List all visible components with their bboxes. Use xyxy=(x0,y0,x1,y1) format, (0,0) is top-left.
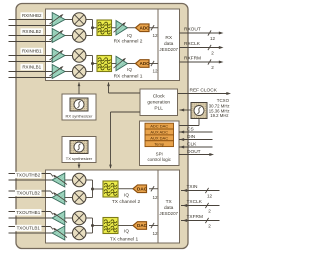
block aux Temp xyxy=(145,141,174,147)
svg-text:SPI: SPI xyxy=(156,152,163,157)
svg-text:TXCLK: TXCLK xyxy=(187,199,203,205)
amplifier RX VGA xyxy=(116,21,128,35)
wire JESD to DAC xyxy=(149,188,158,190)
pin label TXOUTHB2 xyxy=(15,172,42,178)
svg-text:12: 12 xyxy=(207,194,213,199)
filter RX lowpass channel 2 xyxy=(97,20,112,36)
wire RXINHB2 pin lower xyxy=(9,25,52,27)
wire TXOUTLB1 pin upper xyxy=(9,226,51,228)
RX data JESD207 interface box xyxy=(158,9,180,81)
wire ADC to JESD xyxy=(149,63,158,65)
wire TXOUTHB2 pin lower xyxy=(9,179,53,181)
wire VGA to ADC xyxy=(128,63,136,65)
svg-text:2: 2 xyxy=(211,65,214,70)
pin label TXOUTLB1 xyxy=(15,225,42,231)
wire TX synth to TX box xyxy=(78,163,80,169)
svg-text:RXINLB2: RXINLB2 xyxy=(22,29,41,34)
wire bus to filter xyxy=(93,27,98,29)
RX front-end box xyxy=(46,9,180,81)
filter TX lowpass channel 1 xyxy=(103,218,118,234)
wire filter to VGA xyxy=(112,63,117,65)
svg-text:Clock: Clock xyxy=(153,93,166,99)
filter TX lowpass channel 2 xyxy=(103,181,118,197)
svg-text:19.2 MHz: 19.2 MHz xyxy=(210,113,228,118)
svg-text:IQ: IQ xyxy=(127,33,132,38)
wire filter to bus xyxy=(93,188,104,190)
svg-text:JESD207: JESD207 xyxy=(159,47,178,52)
wire mixer2 to amp xyxy=(65,197,73,199)
svg-text:DIN: DIN xyxy=(187,134,196,140)
svg-text:2: 2 xyxy=(208,224,211,229)
wire bus vertical xyxy=(92,218,94,233)
wire clockgen to RX box xyxy=(109,92,141,94)
svg-text:RXFRM: RXFRM xyxy=(184,55,201,61)
wire TXOUTHB1 pin lower xyxy=(9,217,53,219)
ADC xyxy=(136,24,150,32)
svg-text:DAC: DAC xyxy=(137,186,148,191)
wire bus vertical xyxy=(92,56,94,72)
svg-text:RX synthesizer: RX synthesizer xyxy=(66,113,94,118)
wire input TXCLK xyxy=(181,205,220,207)
chip outline U1 transceiver xyxy=(16,4,188,249)
wire DAC to filter xyxy=(118,188,133,190)
amplifier RX VGA xyxy=(116,56,128,70)
svg-text:RX: RX xyxy=(165,35,172,41)
svg-text:TXOUTHB1: TXOUTHB1 xyxy=(16,210,41,215)
mixer RX 4 xyxy=(72,65,86,79)
block RX synthesizer xyxy=(62,94,96,120)
block SPI control logic xyxy=(140,121,180,166)
svg-text:TXFRM: TXFRM xyxy=(187,214,204,220)
svg-text:12: 12 xyxy=(152,33,158,38)
DAC xyxy=(133,185,147,193)
mixer TX 3 xyxy=(72,211,86,225)
DAC xyxy=(133,222,147,230)
svg-text:2: 2 xyxy=(208,209,211,214)
wire amp2 to mixer2 xyxy=(65,35,73,37)
pin label RXINLB1 xyxy=(21,64,44,70)
wire amp3 to mixer3 xyxy=(65,55,73,57)
wire bus to mixers xyxy=(86,217,93,219)
svg-text:IQ: IQ xyxy=(127,67,132,72)
wire TXOUTLB1 pin lower xyxy=(9,232,53,234)
wire ADC to JESD xyxy=(149,27,158,29)
wire input TXIN xyxy=(181,190,220,192)
svg-text:RX channel 1: RX channel 1 xyxy=(114,74,143,80)
svg-text:IQ: IQ xyxy=(124,193,129,198)
filter RX lowpass channel 1 xyxy=(97,56,112,72)
svg-text:DOUT: DOUT xyxy=(187,149,201,155)
svg-text:CLK: CLK xyxy=(187,141,197,147)
node junction xyxy=(91,188,94,191)
amplifier RX LNA 3 xyxy=(52,49,65,63)
block aux ADC DAC xyxy=(145,123,174,129)
wire RXINLB1 pin upper xyxy=(9,71,53,73)
pin label RXINLB2 xyxy=(21,28,44,34)
wire bus vertical xyxy=(92,20,94,36)
wire TXOUTHB1 pin upper xyxy=(9,211,51,213)
wire VGA to ADC xyxy=(128,27,136,29)
wire mixer4 to amp xyxy=(65,232,73,234)
svg-text:RXCLK: RXCLK xyxy=(184,41,201,47)
node junction xyxy=(91,26,94,29)
wire bus to filter xyxy=(93,63,98,65)
wire RXINLB2 pin upper xyxy=(9,35,53,37)
wire mixer pair to bus xyxy=(86,19,93,21)
svg-text:DAC: DAC xyxy=(137,223,148,228)
svg-text:RX channel 2: RX channel 2 xyxy=(114,38,143,44)
svg-text:IQ: IQ xyxy=(124,229,129,234)
wire RXINHB1 pin upper xyxy=(9,55,53,57)
wire mixer pair to bus xyxy=(86,55,93,57)
wire pin DOUT xyxy=(179,154,212,156)
wire pin DIN xyxy=(179,139,213,141)
wire bus to mixers xyxy=(86,179,93,181)
amplifier TX PA 4 xyxy=(52,226,65,240)
wire RXINLB2 pin lower xyxy=(9,41,52,43)
svg-text:RXOUT: RXOUT xyxy=(184,26,201,32)
svg-text:12: 12 xyxy=(152,231,158,236)
block aux AUX ADC xyxy=(145,129,174,135)
svg-text:12: 12 xyxy=(152,69,158,74)
svg-text:TXOUTLB2: TXOUTLB2 xyxy=(17,191,41,196)
svg-text:TX: TX xyxy=(166,199,173,205)
svg-text:TCXO: TCXO xyxy=(217,98,230,103)
svg-text:AUX DAC: AUX DAC xyxy=(150,135,168,140)
mixer TX 1 xyxy=(72,173,86,187)
wire REF CLOCK xyxy=(178,93,230,95)
wire amp4 to mixer4 xyxy=(65,71,73,73)
svg-text:REF CLOCK: REF CLOCK xyxy=(190,87,218,93)
mixer TX 4 xyxy=(72,226,86,240)
pin label TXOUTHB1 xyxy=(15,209,42,215)
svg-text:RXINHB2: RXINHB2 xyxy=(22,13,42,18)
svg-text:RXINHB1: RXINHB1 xyxy=(22,49,42,54)
svg-text:AUX ADC: AUX ADC xyxy=(150,130,168,135)
wire JESD to DAC xyxy=(149,225,158,227)
wire filter to bus xyxy=(93,225,104,227)
amplifier RX LNA 2 xyxy=(52,29,65,43)
svg-text:ADC: ADC xyxy=(140,61,151,66)
amplifier TX PA 3 xyxy=(52,211,65,225)
svg-text:TXOUTHB2: TXOUTHB2 xyxy=(16,173,41,178)
wire mixer3 to amp xyxy=(65,217,73,219)
svg-text:12: 12 xyxy=(210,36,216,41)
pin label RXINHB1 xyxy=(21,48,44,54)
wire input TXFRM xyxy=(181,220,220,222)
wire TXOUTLB2 pin lower xyxy=(9,197,53,199)
svg-text:generation: generation xyxy=(147,99,170,105)
pin label TXOUTLB2 xyxy=(15,190,42,196)
svg-text:TXIN: TXIN xyxy=(187,184,198,190)
svg-text:TX channel 2: TX channel 2 xyxy=(112,199,141,205)
mixer TX 2 xyxy=(72,191,86,205)
svg-text:control logic: control logic xyxy=(147,157,171,162)
wire RX synth to RX box xyxy=(78,83,80,95)
wire bus vertical xyxy=(92,180,94,198)
amplifier RX LNA 4 xyxy=(52,65,65,79)
svg-text:2: 2 xyxy=(211,51,214,56)
wire amp1 to mixer1 xyxy=(65,19,73,21)
node junction xyxy=(91,224,94,227)
mixer RX 1 xyxy=(72,13,86,27)
svg-text:ADC DAC: ADC DAC xyxy=(150,124,168,129)
wire output RXFRM xyxy=(180,61,222,63)
ADC xyxy=(136,60,150,68)
wire clockgen to TX box xyxy=(111,111,141,113)
wire TXOUTLB2 pin upper xyxy=(9,190,51,192)
wire filter to VGA xyxy=(112,27,117,29)
svg-text:TX channel 1: TX channel 1 xyxy=(110,237,139,243)
svg-text:PLL: PLL xyxy=(154,105,163,111)
block TX synthesizer xyxy=(62,137,96,163)
mixer RX 2 xyxy=(72,29,86,43)
wire pin CS xyxy=(179,131,213,133)
block aux AUX DAC xyxy=(145,135,174,141)
node junction xyxy=(91,62,94,65)
wire RXINHB2 pin upper xyxy=(9,19,53,21)
svg-text:TXOUTLB1: TXOUTLB1 xyxy=(17,226,41,231)
svg-text:JESD207: JESD207 xyxy=(159,211,178,216)
svg-text:CS: CS xyxy=(187,126,194,132)
amplifier TX PA 2 xyxy=(52,191,65,205)
svg-text:12: 12 xyxy=(152,195,158,200)
TX data JESD207 interface box xyxy=(158,170,180,243)
block clock generation PLL xyxy=(140,89,178,116)
wire output RXOUT xyxy=(180,32,222,34)
pin label RXINHB2 xyxy=(21,12,44,18)
mixer RX 3 xyxy=(72,49,86,63)
svg-text:ADC: ADC xyxy=(140,25,151,30)
amplifier TX PA 1 xyxy=(52,173,65,187)
amplifier RX LNA 1 xyxy=(52,13,65,27)
wire pin CLK xyxy=(179,146,213,148)
svg-text:RXINLB1: RXINLB1 xyxy=(22,65,41,70)
svg-text:TX synthesizer: TX synthesizer xyxy=(66,156,93,161)
wire RXINHB1 pin lower xyxy=(9,61,52,63)
wire output RXCLK xyxy=(180,47,222,49)
crystal oscillator TCXO xyxy=(191,103,207,119)
wire DAC to filter xyxy=(118,225,133,227)
wire mixer1 to amp xyxy=(65,179,73,181)
wire TCXO to SPI box xyxy=(198,119,200,126)
wire TXOUTHB2 pin upper xyxy=(9,173,51,175)
svg-text:Temp: Temp xyxy=(154,141,165,146)
wire RXINLB1 pin lower xyxy=(9,77,52,79)
wire TCXO to clockgen xyxy=(180,109,192,111)
TX front-end box xyxy=(46,170,180,243)
